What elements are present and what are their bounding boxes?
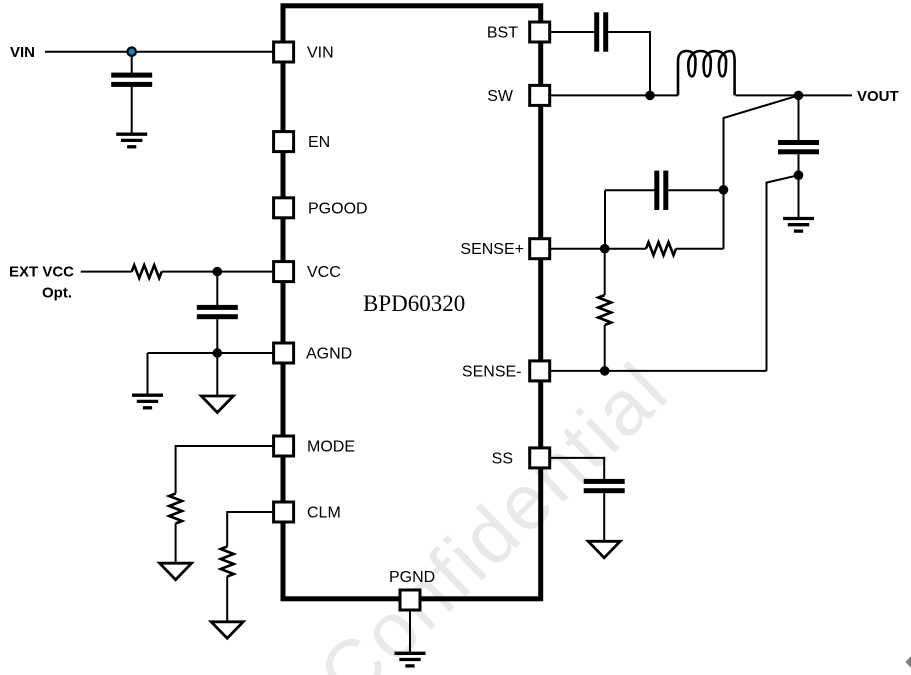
svg-text:CLM: CLM xyxy=(307,505,341,522)
pin PGOOD xyxy=(274,198,294,218)
svg-text:VIN: VIN xyxy=(10,44,35,61)
wire C5 to feedback node xyxy=(668,189,723,191)
cursor arrow (gray, bottom right) xyxy=(906,656,911,668)
pin SS xyxy=(530,448,550,468)
wire VOUT down to capacitor C4 xyxy=(798,95,800,140)
wire VCC node down to capacitor C2 xyxy=(216,272,218,306)
wire MODE to resistor R2 xyxy=(176,446,273,494)
svg-text:SENSE-: SENSE- xyxy=(462,363,522,380)
node AGND junction xyxy=(213,348,223,358)
capacitor C3 (bootstrap) xyxy=(594,12,608,51)
wire VIN input xyxy=(45,51,273,53)
node VOUT junction xyxy=(794,91,804,101)
capacitor C5 (feedforward) xyxy=(654,171,668,210)
svg-text:PGND: PGND xyxy=(389,569,435,586)
ground (VOUT cap, bar style) xyxy=(783,219,814,232)
wire SENSE+ node down to resistor R5 xyxy=(604,249,606,295)
pin VCC xyxy=(274,262,294,282)
svg-text:AGND: AGND xyxy=(306,346,352,363)
wire top of RC: left segment to capacitor C5 xyxy=(605,189,655,191)
wire AGND left drop to ground xyxy=(147,353,149,394)
svg-text:VIN: VIN xyxy=(307,45,334,62)
ground (AGND left, bar style) xyxy=(132,395,163,408)
svg-text:Opt.: Opt. xyxy=(42,285,72,302)
IC U1 body BPD60320 xyxy=(283,6,541,599)
capacitor C4 (output) xyxy=(778,140,819,154)
pin MODE xyxy=(274,436,294,456)
pin PGND xyxy=(400,590,420,610)
svg-text:Confidential: Confidential xyxy=(302,345,685,675)
wire right column up to C4 ground node xyxy=(767,175,799,371)
wire R2 to triangle ground xyxy=(175,524,177,564)
wire C2 to AGND wire xyxy=(216,319,218,353)
wire EXT VCC to resistor R1 xyxy=(81,271,132,273)
pin SENSE+ xyxy=(530,239,550,259)
pin SENSE- xyxy=(530,361,550,381)
pin CLM xyxy=(274,502,294,522)
wire from VIN node down to capacitor C1 xyxy=(131,52,133,73)
wire SS to capacitor C6 xyxy=(550,458,604,479)
svg-text:PGOOD: PGOOD xyxy=(308,200,368,217)
wire AGND net xyxy=(148,352,274,354)
ground (AGND, open triangle) xyxy=(201,396,233,413)
capacitor C6 (soft start) xyxy=(584,479,625,493)
wire R3 to triangle ground xyxy=(226,577,228,623)
wire SENSE- net to right column xyxy=(550,370,767,372)
node SW junction xyxy=(645,91,655,101)
wire AGND node down to triangle ground xyxy=(216,353,218,395)
wire SENSE+ to resistor R4 xyxy=(550,248,646,250)
node feedback junction xyxy=(719,185,729,195)
wire left drop to SENSE+ xyxy=(604,190,606,248)
svg-text:BST: BST xyxy=(487,25,518,42)
ground (CLM, open triangle) xyxy=(211,622,243,639)
resistor R2 (MODE pulldown) xyxy=(169,494,182,524)
ground (VIN cap) xyxy=(116,134,147,147)
svg-text:BPD60320: BPD60320 xyxy=(363,291,465,316)
wire PGND to ground xyxy=(409,611,411,652)
node SENSE+ junction xyxy=(600,244,610,254)
svg-text:EN: EN xyxy=(308,134,330,151)
wire L1 to VOUT xyxy=(736,94,853,96)
pin EN xyxy=(274,132,294,152)
pin SW xyxy=(530,85,550,105)
node VCC junction xyxy=(213,267,223,277)
svg-text:SENSE+: SENSE+ xyxy=(460,241,524,258)
wire C1 to ground xyxy=(131,87,133,133)
svg-text:SS: SS xyxy=(492,450,513,467)
wire BST to capacitor C3 xyxy=(550,31,594,33)
wire R5 down to SENSE- xyxy=(604,325,606,371)
node VIN junction (blue) xyxy=(128,48,136,56)
svg-text:SW: SW xyxy=(487,88,514,105)
capacitor C2 (VCC bypass) xyxy=(197,305,238,319)
node below C4 xyxy=(794,170,804,180)
resistor R4 (feedback top) xyxy=(646,242,676,255)
resistor R1 (EXT VCC series) xyxy=(132,265,162,278)
wire R1 to VCC pin xyxy=(162,271,273,273)
pin BST xyxy=(530,22,550,42)
svg-text:EXT VCC: EXT VCC xyxy=(9,264,74,281)
wire R4 to feedback column xyxy=(676,248,724,250)
wire VOUT node diagonal to divider column xyxy=(724,95,799,248)
svg-text:VCC: VCC xyxy=(307,264,341,281)
capacitor C1 (VIN bypass) xyxy=(111,73,152,87)
resistor R5 (divider bottom) xyxy=(598,295,611,325)
resistor R3 (CLM pulldown) xyxy=(221,547,234,577)
ground (SS, open triangle) xyxy=(588,541,620,558)
inductor L1 xyxy=(678,51,735,95)
svg-text:MODE: MODE xyxy=(307,439,355,456)
wire C3 to SW node xyxy=(608,32,650,95)
watermark Confidential xyxy=(302,345,685,675)
node SENSE- junction xyxy=(600,366,610,376)
wire C6 down to triangle ground xyxy=(603,493,605,541)
wire C4 to ground node xyxy=(798,154,800,217)
pin VIN xyxy=(274,42,294,62)
pin AGND xyxy=(274,343,294,363)
wire CLM to resistor R3 xyxy=(227,512,273,547)
wire SW to inductor L1 xyxy=(550,94,678,96)
svg-text:VOUT: VOUT xyxy=(857,88,899,105)
ground (PGND, bar style) xyxy=(395,653,426,666)
ground (MODE, open triangle) xyxy=(160,563,192,580)
